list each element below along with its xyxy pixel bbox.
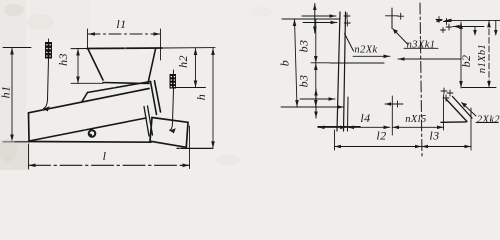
svg-text:b3: b3 [297, 75, 311, 88]
notch diagonal 1 [446, 99, 467, 122]
stub arrow down from line 2 [474, 27, 476, 34]
dimension l3 line [422, 146, 472, 148]
extension line l right [189, 126, 191, 169]
svg-text:n2Xk: n2Xk [354, 45, 377, 56]
dimension b line [295, 19, 298, 107]
svg-text:b2: b2 [459, 55, 473, 68]
bolt line bottom-left pad [347, 97, 350, 131]
leader 2Xk2 [462, 103, 477, 117]
trough left edge [28, 113, 31, 142]
dimension nXl5 line [393, 126, 444, 128]
trough inner diagonal [29, 118, 146, 141]
horizontal pointer line at y59 [398, 58, 461, 60]
bottom-middle pad vertical [391, 96, 393, 135]
dimension b2 line [460, 22, 462, 88]
leader n2Xk [345, 34, 354, 52]
hopper outlet bottom [103, 83, 149, 84]
svg-text:l2: l2 [376, 128, 386, 142]
extension line h3 bottom [71, 82, 103, 84]
extension line l1 right [160, 29, 162, 60]
notch diagonal 2 [453, 97, 473, 119]
bottom-right pad plus marks [441, 88, 447, 94]
dimension h line [212, 48, 214, 148]
bolt circle on trough [89, 130, 96, 137]
trough bottom edge [29, 141, 151, 144]
leader n3Xk1 [393, 29, 408, 45]
extension line b top [282, 18, 340, 20]
extension line b3 middle / mid pad line [311, 62, 330, 64]
leader from left hanger with hook arrow [48, 39, 50, 42]
underline n3Xk1 [404, 47, 438, 49]
svg-text:l1: l1 [116, 17, 126, 31]
bottom-left pad arrow line [300, 98, 335, 100]
paper speckle noise (decorative) [3, 4, 487, 167]
dimension h3 arrow down [76, 77, 80, 84]
extension line h bottom [177, 147, 213, 149]
vibrator motor box [150, 118, 188, 148]
top-middle pad plus mark [398, 13, 404, 19]
plus marks right of left edge top [344, 13, 350, 26]
plan left edge double line [337, 12, 340, 131]
dimension l1 arrow left [88, 32, 95, 36]
svg-text:h: h [194, 94, 208, 100]
bottom-left pad vertical [315, 89, 317, 118]
top-left pad arrow line 2 [303, 22, 337, 24]
underline n2Xk with arrow [353, 55, 390, 57]
underline 2Xk2 [476, 122, 498, 124]
top-left pad arrow line 1 [302, 15, 336, 17]
dimension l4 line [318, 126, 390, 128]
dimension h1 arrow down [10, 135, 14, 142]
hopper right wall [148, 49, 156, 83]
hopper rim line (continues right as extension for h2 and h) [71, 48, 88, 50]
trough top edge [29, 89, 150, 113]
leader from right hanger with hook arrow [170, 89, 174, 131]
hanger right (suspension) [170, 70, 177, 89]
extension line x443 [443, 95, 445, 130]
svg-text:l: l [103, 149, 107, 163]
extension line l left [28, 144, 30, 169]
paper background [0, 0, 500, 170]
extension line l3 right [470, 108, 472, 150]
trough skirt top edge [88, 82, 151, 93]
dimension h arrows [211, 48, 215, 55]
dimension h2 arrows [194, 48, 198, 55]
svg-text:h2: h2 [176, 55, 190, 68]
plan bottom edge stub [318, 126, 360, 128]
extension line bottom right pads [462, 87, 496, 89]
trough end wall outer [151, 82, 157, 115]
svg-text:nXl5: nXl5 [405, 114, 426, 125]
bottom-middle pad plus [395, 101, 401, 107]
dimension l1 arrow right [154, 32, 161, 36]
svg-text:h3: h3 [56, 53, 70, 66]
extension line b bottom [281, 106, 344, 108]
top-middle pad horizontal [386, 15, 399, 17]
dimension l line [29, 164, 190, 166]
dimension h1 arrow up [10, 48, 14, 55]
svg-text:2Xk2: 2Xk2 [477, 115, 500, 126]
trough end bracket line 1 [144, 107, 149, 137]
dimension h3 line [77, 49, 79, 84]
bottom-middle pad horizontal with arrow [385, 103, 403, 105]
dimension h1 line [11, 48, 13, 142]
svg-text:h1: h1 [0, 86, 13, 99]
extension line h1 top [3, 47, 31, 49]
dimension h2 line [195, 48, 197, 88]
svg-text:b3: b3 [297, 40, 311, 53]
hanger left (suspension) [45, 42, 52, 59]
svg-text:b: b [278, 60, 292, 66]
dimension h3 arrow up [76, 49, 80, 56]
svg-text:l4: l4 [360, 111, 370, 125]
hopper left wall [88, 49, 103, 80]
trough end bracket line 2 [148, 106, 153, 135]
trough skirt riser [82, 93, 88, 102]
top-right pad plus marks [436, 17, 442, 23]
svg-text:n3Xk1: n3Xk1 [407, 39, 436, 50]
dimension b3 line (upper+lower) [315, 19, 317, 107]
dimension n1Xb1 line [488, 20, 490, 88]
trough end wall inner [155, 81, 161, 112]
top-right extension line 1 [445, 19, 500, 21]
extension line h1 bottom / baseline tick [3, 141, 28, 143]
mid extension under n2Xk [330, 62, 384, 64]
stub arrow down far right [495, 20, 497, 34]
top-middle pad vertical [391, 8, 393, 29]
dimension l1 line [88, 33, 160, 35]
extension line h2 bottom [174, 87, 206, 89]
dimension l2 line [335, 146, 422, 148]
center line (dash-dot) [420, 3, 422, 157]
plan bottom edge right segment [441, 121, 466, 123]
svg-text:l3: l3 [429, 128, 439, 142]
extension line l1 left [87, 29, 89, 49]
extension line l2 left [334, 130, 336, 150]
dimension l arrows [29, 164, 36, 168]
svg-text:n1Xb1: n1Xb1 [477, 44, 488, 73]
top-left pad vertical [314, 4, 316, 34]
top-right extension line 2 [453, 26, 484, 28]
